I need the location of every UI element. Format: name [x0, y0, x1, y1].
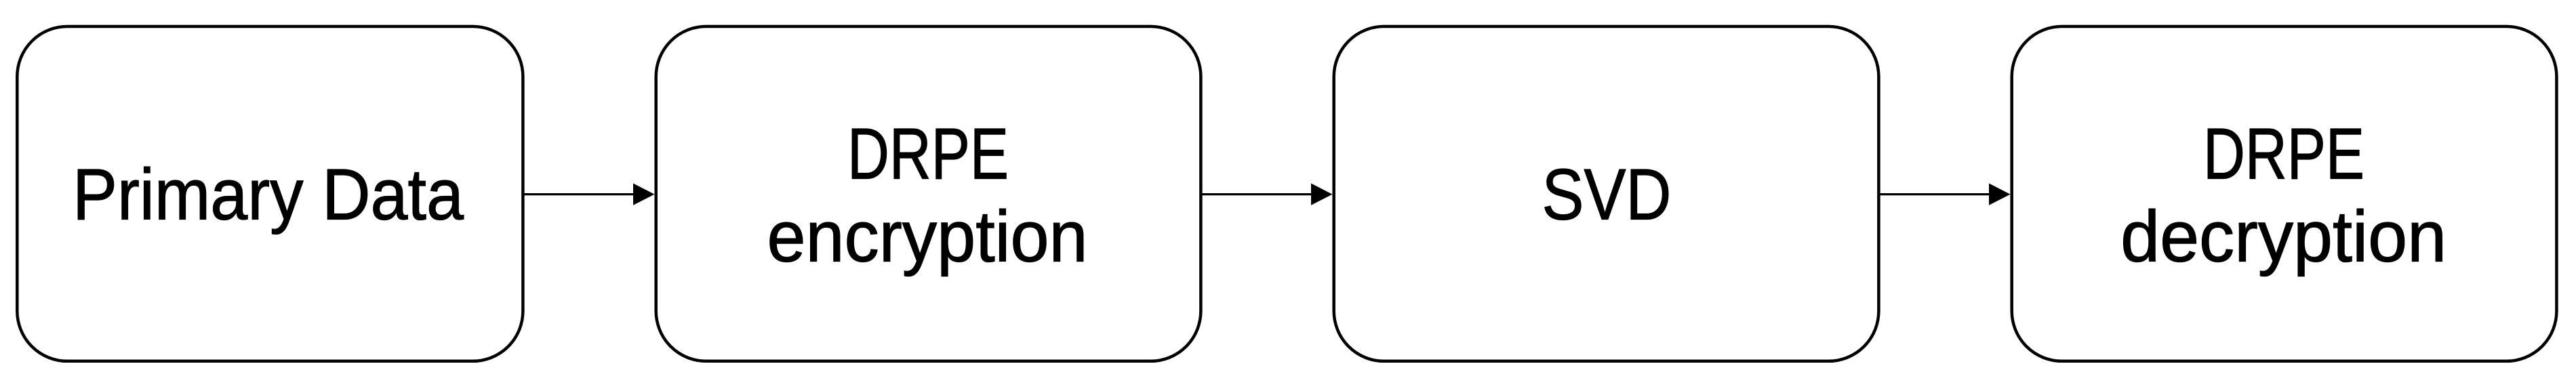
svg-text:decryption: decryption [2120, 196, 2447, 277]
svg-text:SVD: SVD [1542, 154, 1672, 235]
svg-text:DRPE: DRPE [847, 113, 1009, 194]
svg-text:DRPE: DRPE [2203, 113, 2364, 194]
svg-text:Primary Data: Primary Data [73, 154, 464, 235]
svg-text:encryption: encryption [767, 196, 1088, 277]
